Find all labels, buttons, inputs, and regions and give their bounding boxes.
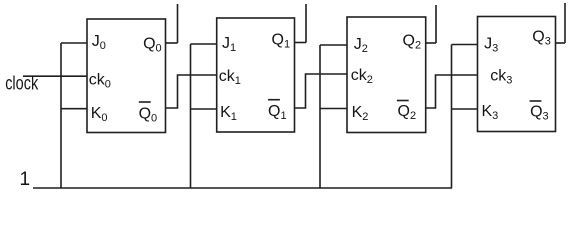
svg-text:J3: J3 — [484, 36, 498, 55]
svg-text:K2: K2 — [352, 104, 369, 123]
svg-text:Q0: Q0 — [139, 105, 158, 124]
svg-text:Q1: Q1 — [272, 31, 291, 50]
svg-text:K3: K3 — [482, 103, 499, 122]
svg-text:Q1: Q1 — [268, 103, 287, 122]
svg-text:J2: J2 — [354, 36, 368, 55]
svg-text:clock: clock — [5, 74, 38, 95]
svg-text:Q2: Q2 — [398, 103, 417, 122]
svg-text:Q3: Q3 — [530, 103, 549, 122]
svg-text:1: 1 — [20, 169, 31, 190]
svg-text:ck2: ck2 — [351, 67, 373, 86]
svg-text:J1: J1 — [222, 35, 236, 54]
svg-text:Q3: Q3 — [532, 29, 551, 48]
svg-text:ck3: ck3 — [490, 67, 512, 86]
svg-text:Q2: Q2 — [403, 32, 422, 51]
svg-text:K0: K0 — [91, 105, 108, 124]
svg-text:J0: J0 — [92, 33, 106, 52]
svg-text:ck1: ck1 — [219, 68, 241, 87]
svg-text:ck0: ck0 — [89, 71, 111, 90]
svg-text:K1: K1 — [220, 104, 237, 123]
svg-text:Q0: Q0 — [143, 35, 162, 54]
